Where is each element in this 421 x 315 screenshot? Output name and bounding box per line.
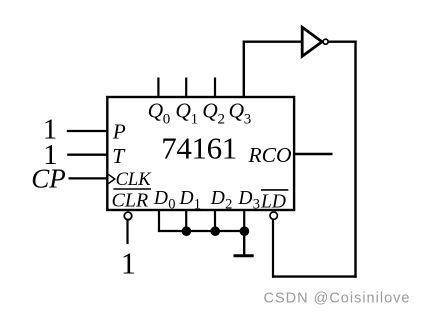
IC body U1 74161	[107, 97, 294, 210]
wire P input	[67, 130, 108, 132]
wire T input	[67, 154, 107, 156]
wire D2 down	[214, 210, 216, 231]
wire Q2 stub	[214, 78, 216, 97]
junction dot at D2	[210, 226, 220, 236]
svg-text:T: T	[112, 144, 126, 168]
svg-text:74161: 74161	[161, 131, 237, 166]
wire Q0 stub	[157, 78, 159, 97]
wire D3 down	[243, 210, 245, 231]
wire RCO stub	[294, 153, 333, 155]
wire D bus horizontal	[158, 230, 244, 232]
svg-text:0: 0	[168, 197, 175, 213]
wire CLR down	[126, 220, 128, 244]
wire bottom feedback	[272, 275, 356, 277]
svg-text:P: P	[112, 120, 126, 144]
svg-text:1: 1	[121, 246, 136, 280]
wire Q3 to inverter input	[244, 42, 301, 97]
svg-text:1: 1	[191, 111, 199, 127]
svg-text:3: 3	[244, 111, 252, 127]
junction dot at D1	[182, 226, 192, 236]
wire CP input	[69, 177, 108, 179]
bubble on LD pin	[270, 212, 277, 219]
clock input triangle on CLK pin	[108, 174, 115, 183]
svg-text:CSDN @Coisinilove: CSDN @Coisinilove	[264, 291, 411, 307]
svg-text:D: D	[210, 188, 225, 209]
junction dot at D3	[240, 226, 250, 236]
svg-text:Q: Q	[148, 99, 164, 123]
inverter U2	[302, 27, 322, 56]
svg-text:2: 2	[225, 197, 232, 213]
svg-text:CLK: CLK	[116, 170, 153, 190]
svg-text:1: 1	[194, 197, 201, 213]
svg-text:LD: LD	[260, 192, 286, 213]
svg-text:D: D	[237, 188, 252, 209]
svg-text:2: 2	[218, 111, 226, 127]
overline of LD	[261, 189, 288, 191]
wire right vertical feedback	[354, 41, 356, 278]
svg-text:3: 3	[253, 197, 260, 213]
wire D1 down	[185, 210, 187, 231]
svg-text:RCO: RCO	[248, 143, 292, 167]
wire up to LD bubble	[272, 220, 274, 278]
svg-text:0: 0	[163, 111, 171, 127]
svg-text:D: D	[153, 188, 168, 209]
ground bar	[234, 254, 254, 257]
svg-text:CLR: CLR	[112, 189, 149, 211]
wire inverter output to right	[328, 41, 356, 43]
inverter output bubble	[323, 39, 328, 44]
overline of CLR	[113, 188, 151, 190]
wire D0 down	[158, 210, 160, 231]
wire Q1 stub	[185, 78, 187, 97]
wire D3 to ground	[243, 231, 245, 255]
svg-text:D: D	[179, 188, 194, 209]
svg-text:Q: Q	[175, 99, 191, 123]
svg-text:Q: Q	[229, 99, 245, 123]
svg-text:Q: Q	[202, 99, 218, 123]
bubble on CLR pin	[124, 212, 132, 220]
svg-text:CP: CP	[31, 163, 66, 193]
